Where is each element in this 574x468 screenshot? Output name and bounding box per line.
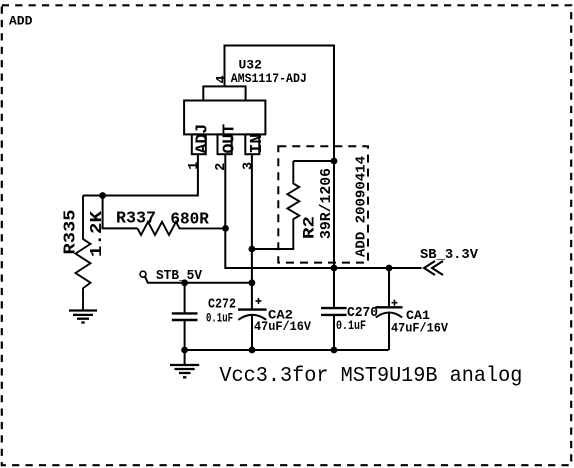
svg-text:4: 4 [215,75,230,83]
svg-text:R2: R2 [301,216,319,239]
power port SB_3.3V chevron [424,261,443,275]
resistor R2 [252,161,299,249]
svg-text:680R: 680R [170,211,209,230]
svg-text:1: 1 [187,162,202,170]
node junction rail/C270 branch [331,265,338,272]
resistor R335 [76,196,91,311]
wire R2 top to rail vertical [293,160,334,162]
svg-text:2: 2 [214,163,229,171]
svg-text:39R/1206: 39R/1206 [318,168,335,239]
wire junction down to R337 [103,196,138,229]
svg-text:47uF/16V: 47uF/16V [391,321,448,336]
svg-text:OUT: OUT [220,124,239,154]
svg-text:AMS1117-ADJ: AMS1117-ADJ [231,71,307,86]
svg-text:STB_5V: STB_5V [156,269,203,284]
svg-text:IN: IN [247,134,266,154]
wire ground rail [185,349,389,351]
svg-text:SB_3.3V: SB_3.3V [420,247,479,263]
svg-text:47uF/16V: 47uF/16V [254,319,311,334]
capacitor C270 [321,308,347,350]
svg-text:ADD: ADD [9,14,33,29]
capacitor C272 [172,283,198,350]
svg-text:R337: R337 [116,210,156,229]
node junction ADJ/R335/R337 [99,192,106,199]
node junction rail/C272/gnd [181,347,188,354]
wire pin1 ADJ down and left [83,154,198,195]
svg-text:ADD 20090414: ADD 20090414 [354,156,370,257]
resistor R337 [138,222,226,235]
node junction rail/CA2 [249,347,256,354]
svg-text:Vcc3.3for MST9U19B analog: Vcc3.3for MST9U19B analog [219,365,522,388]
capacitor CA2 polarized [238,298,267,350]
node junction 5V/C272 [181,279,188,286]
wire pin3 IN down to 5V net and CA2 [251,154,253,309]
wire pin2 OUT down to 3.3V rail [225,154,421,268]
node junction R2/top rail [331,158,338,165]
svg-text:3: 3 [242,162,257,170]
op-amp U32 regulator AMS1117 package body [184,86,265,154]
svg-text:0.1uF: 0.1uF [336,318,366,333]
ground under C272 [170,350,199,377]
dashed box ADD 20090414 [278,146,368,262]
svg-text:0.1uF: 0.1uF [206,311,233,326]
wire pin4 tab to right vertical rail [225,46,335,309]
node junction IN/5V wire/CA2 [249,279,256,286]
node junction rail/CA1 branch [386,265,393,272]
node junction R337/OUT [222,225,229,232]
node junction IN/R2 bottom [249,246,256,253]
wire STB_5V to IN line [145,277,252,283]
svg-text:R335: R335 [62,210,81,255]
svg-text:1.2K: 1.2K [88,210,107,257]
svg-text:ADJ: ADJ [193,124,212,154]
node junction rail/C270 [331,347,338,354]
capacitor CA1 polarized [376,268,403,350]
connector pin STB_5V circle [140,271,146,277]
ground under R335 [69,311,97,323]
